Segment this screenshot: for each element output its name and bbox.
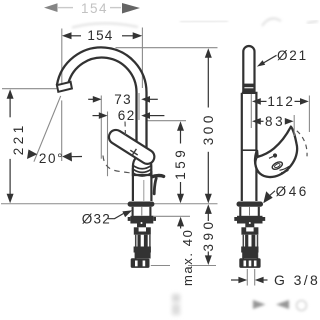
mounting surface line — [1, 203, 218, 205]
dimension 221: top extension line — [2, 88, 57, 90]
ghost faint arc top right — [262, 18, 281, 26]
svg-text:Ø46: Ø46 — [276, 184, 309, 199]
ghost arc remnant above spout — [72, 23, 138, 27]
svg-text:300: 300 — [201, 112, 216, 145]
threaded rod (left) — [138, 235, 141, 247]
angle 20 deg: slanted reference line — [34, 96, 61, 162]
nose contour lines — [280, 166, 290, 173]
counter max-depth line — [150, 215, 190, 217]
threaded rod (right) — [245, 235, 248, 247]
connector bands (right) — [241, 247, 258, 253]
cartridge rings — [133, 166, 151, 169]
shank bottom reference line — [151, 265, 216, 267]
ghost faint line top middle — [180, 21, 228, 22]
neck below flange (left) — [133, 207, 151, 216]
ghost bottom left-pointing arrow — [276, 300, 289, 309]
dimension 73: arrows — [88, 98, 93, 100]
dimension max40: top arrow — [177, 217, 184, 227]
window walls (right) — [241, 227, 246, 231]
dimension D46: leader arrow — [268, 191, 275, 197]
dimension 300: top extension line — [116, 47, 218, 49]
lever stick (vertical capsule) — [243, 46, 254, 93]
side hook (pop-up rod knob) — [152, 175, 164, 176]
svg-text:390: 390 — [201, 218, 216, 251]
svg-text:83: 83 — [265, 114, 285, 129]
dimension 390: line and arrows — [205, 204, 212, 214]
aerator ring — [271, 160, 284, 170]
ghost top right arrow (darker remnant) — [122, 3, 140, 14]
spout outer curve — [57, 47, 147, 150]
spout tip aerator — [57, 82, 72, 92]
G 3/8: extension lines — [247, 269, 254, 286]
body joint line — [242, 149, 257, 151]
center tab with dot (right) — [245, 224, 254, 228]
base flange (right) — [237, 202, 264, 207]
svg-text:G 3/8: G 3/8 — [274, 272, 320, 288]
spout heel inner curve — [256, 158, 259, 173]
dimension 300: line and arrows — [205, 48, 212, 58]
dimension D21: leader arrow — [263, 55, 277, 63]
body center line (left) — [143, 180, 145, 201]
ghost bottom right-pointing arrow — [253, 300, 266, 309]
spout nose (right view) — [255, 127, 297, 177]
shank tubes (left) — [136, 235, 150, 259]
ghost bottom G circle — [297, 301, 307, 311]
dimension 221: line and arrows — [7, 89, 14, 99]
svg-text:Ø32: Ø32 — [82, 212, 111, 227]
dashed lever alternate position — [103, 156, 131, 174]
dashed swivel arc (right view) — [297, 131, 307, 157]
pipe-axis extension line — [138, 93, 140, 120]
svg-text:159: 159 — [173, 147, 188, 180]
connector bands (left) — [134, 247, 151, 253]
G 3/8: arrows — [231, 279, 239, 281]
dimension 62: arrows — [93, 115, 100, 117]
svg-text:max. 40: max. 40 — [180, 229, 195, 286]
body dome (cartridge cap) — [133, 156, 151, 175]
dimension 112: extension lines — [251, 94, 309, 132]
dimension 83: extension line — [293, 115, 295, 136]
dashed lever swivel marks — [124, 122, 127, 136]
angle 20 deg: left arrow — [27, 150, 37, 160]
base flange (left) — [128, 202, 155, 207]
bottom bar of cap (right) — [241, 232, 258, 235]
lever handle (capsule) — [109, 130, 154, 164]
angle 20 deg: right arrow — [62, 152, 72, 161]
ghost bottom smudge (max 40 remnant) — [172, 294, 180, 315]
svg-text:62: 62 — [118, 108, 136, 123]
svg-text:20°: 20° — [39, 151, 64, 166]
dimension 154: right extension line — [141, 28, 143, 89]
svg-text:154: 154 — [87, 28, 113, 43]
dimension 112: arrows — [252, 98, 261, 105]
lock ring block (right) — [237, 216, 263, 224]
label D32 leader and arrow — [108, 214, 124, 219]
dimension 62: left extension line — [107, 112, 109, 177]
shank tubes (right) — [243, 235, 257, 259]
lock ring block (left) — [130, 216, 153, 224]
dimension 73: left extension line — [100, 96, 102, 159]
window walls (left) — [134, 227, 139, 231]
limiter screw dot — [273, 153, 277, 157]
bottom nut (right) — [239, 258, 260, 268]
body column left edge — [132, 168, 134, 201]
body column right edge — [150, 171, 152, 201]
lever base bands — [244, 84, 255, 88]
svg-text:Ø21: Ø21 — [277, 48, 308, 63]
dimension 154: left extension line — [61, 29, 63, 87]
svg-text:73: 73 — [114, 92, 132, 107]
dimension 159: line and arrows — [177, 121, 184, 131]
plus mark on lever — [130, 149, 137, 156]
dimension 154: right arrow — [133, 32, 143, 39]
dimension 159: top extension line — [146, 120, 186, 122]
ghost top dimension 154 (faded carousel remnant) — [44, 1, 121, 16]
bottom nut (left) — [131, 258, 150, 268]
dimension 83: arrows — [252, 118, 261, 125]
svg-text:154: 154 — [81, 1, 108, 16]
center tab with dot (left) — [137, 224, 146, 228]
spout inner curve — [69, 58, 137, 142]
neck below flange (right) — [240, 207, 258, 216]
angle 20 deg: vertical reference line — [61, 100, 63, 161]
body column (right view) — [242, 93, 257, 201]
svg-text:221: 221 — [11, 122, 26, 155]
svg-text:112: 112 — [267, 94, 295, 109]
bottom bar of cap (left) — [134, 232, 151, 235]
dimension 154: left arrow — [62, 32, 72, 39]
ghost faint mark top far right — [307, 21, 318, 23]
